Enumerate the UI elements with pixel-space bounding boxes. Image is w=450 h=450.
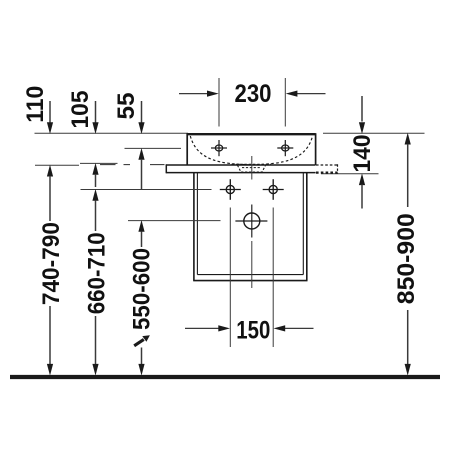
drain recess (hidden, dashed) — [238, 165, 266, 172]
left faucet hole symbol — [211, 140, 227, 156]
console hidden extension (dashed) — [316, 164, 338, 173]
washbasin body outline — [187, 133, 315, 165]
svg-text:105: 105 — [67, 91, 94, 129]
dimension 550-600 arrow to drain leader — [138, 220, 144, 232]
drain leader line — [128, 220, 221, 222]
dim 55 arrow up to 55-line — [138, 148, 144, 160]
rim reference line (left segment) — [35, 132, 189, 134]
left fixing hole — [220, 179, 241, 200]
dim 105 arrow up to 105-line — [92, 163, 98, 175]
pedestal inner lines — [197, 173, 303, 275]
dimension 230 extension lines — [218, 78, 220, 127]
dimension 230 arrows — [179, 93, 326, 95]
pedestal / siphon cover outer — [193, 173, 307, 281]
svg-text:550-600: 550-600 — [128, 248, 155, 330]
basin bowl hidden curve (dashed) — [190, 136, 312, 165]
110 reference line — [35, 164, 79, 166]
dimension 150 arrows — [185, 327, 220, 329]
svg-text:110: 110 — [22, 86, 49, 123]
105 reference line — [80, 162, 118, 164]
svg-text:660-710: 660-710 — [83, 232, 110, 314]
svg-text:140: 140 — [349, 135, 376, 173]
dashed axis line under basin left — [100, 164, 165, 166]
fixing holes leader line — [81, 189, 212, 191]
dim 110 arrow up to 110-line — [47, 165, 53, 177]
55 reference line — [125, 147, 182, 149]
svg-text:55: 55 — [113, 93, 140, 120]
dimension 140 upper arrow — [361, 96, 363, 122]
dim 55 arrow down to rim — [141, 101, 143, 123]
dimension 740-790 line + label — [49, 176, 51, 221]
dimension 660-710 arrow to fixing leader — [92, 189, 98, 201]
dim 110 arrow down to rim — [49, 101, 51, 123]
svg-text:150: 150 — [236, 317, 270, 345]
adjustability arrow (diagonal) — [134, 335, 150, 346]
140 lower reference line — [321, 173, 379, 175]
dimension 140 lower arrow — [359, 173, 365, 185]
right fixing hole — [263, 179, 284, 200]
drain hole — [235, 205, 267, 238]
rim reference line (right segment) — [323, 132, 425, 134]
svg-text:740-790: 740-790 — [38, 222, 65, 305]
right hole centre line — [272, 208, 274, 348]
svg-text:230: 230 — [235, 80, 272, 108]
floor line — [10, 375, 440, 379]
drain centre line — [251, 156, 253, 288]
left hole centre line — [229, 208, 231, 348]
dimension 850-900 — [405, 133, 411, 145]
right faucet hole symbol — [277, 140, 293, 156]
svg-text:850-900: 850-900 — [393, 213, 420, 304]
console shelf band — [166, 164, 315, 173]
dim 105 arrow down to rim — [95, 101, 97, 123]
